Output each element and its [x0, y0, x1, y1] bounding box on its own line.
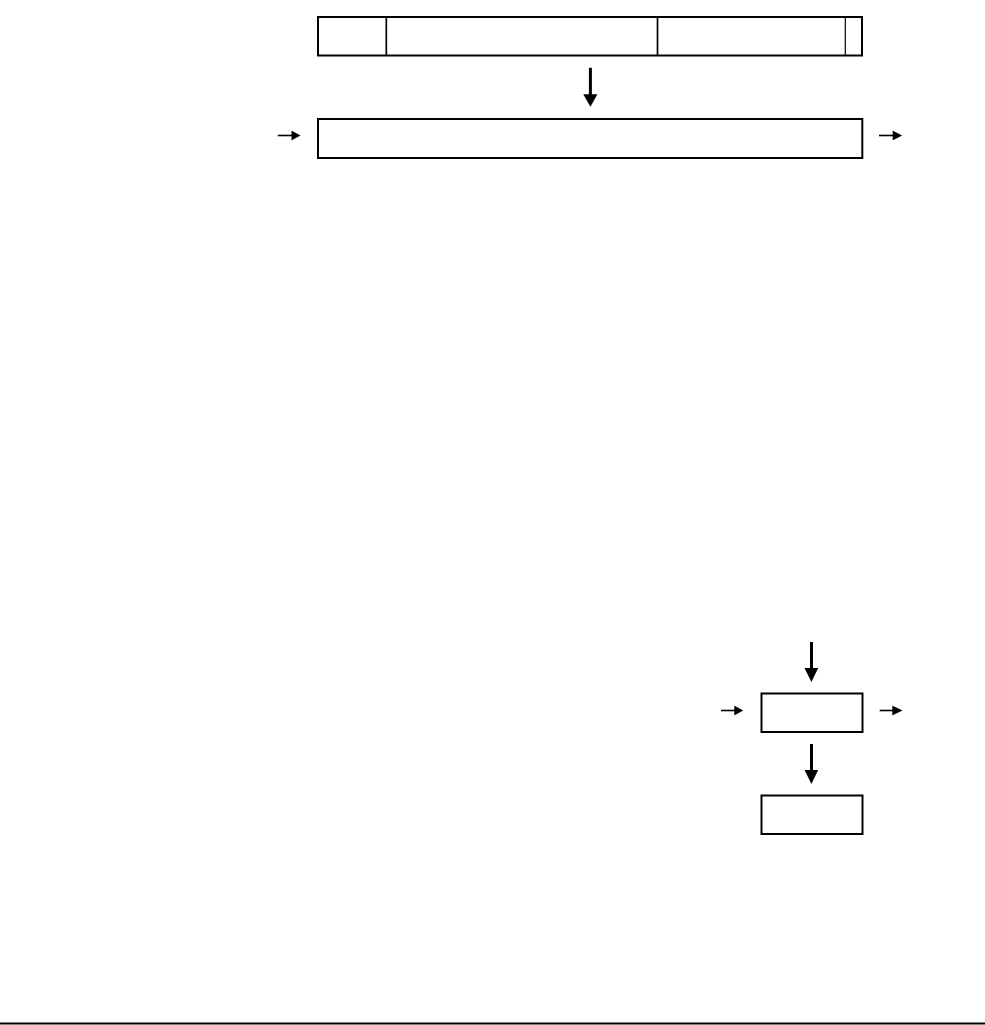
field divider 2 — [657, 17, 659, 56]
process box (upper small rectangle) — [762, 694, 863, 733]
down arrow from process box to output box — [810, 744, 813, 771]
frame format box (top segmented rectangle) — [318, 17, 862, 56]
output box (lower small rectangle) — [762, 796, 863, 835]
down arrow from frame format box to channel bar — [589, 68, 592, 96]
right outbound arrow from process box — [880, 710, 894, 712]
left inbound arrow to process box — [721, 710, 736, 712]
down arrow into process box — [810, 642, 813, 670]
field divider 3 (thin trailer cell) — [844, 17, 846, 56]
channel bar (wide rectangle) — [318, 119, 862, 158]
right outbound arrow from channel bar — [879, 135, 894, 137]
field divider 1 — [385, 17, 387, 56]
footer rule (full-width horizontal line at page bottom) — [0, 1023, 985, 1025]
left inbound arrow to channel bar — [278, 135, 293, 137]
